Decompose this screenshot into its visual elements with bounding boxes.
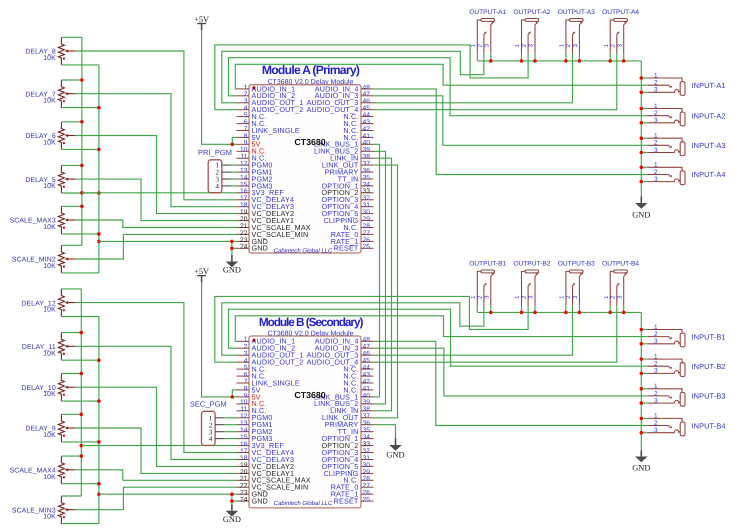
connector jack OUTPUT-A3 (phone jack, vertical) [558, 9, 595, 54]
svg-text:OUTPUT-A4: OUTPUT-A4 [602, 9, 639, 16]
wire SEC_PGM pin 4 to IC [225, 438, 237, 440]
svg-text:INPUT-A3: INPUT-A3 [692, 141, 726, 150]
svg-text:13: 13 [240, 420, 248, 427]
ground symbol input bus B [635, 450, 648, 462]
IC UA pin stubs right 25-48 [361, 89, 374, 248]
IC UB pin names and numbers [240, 337, 370, 506]
wire OUTPUT-A2 ring pin to bus [534, 54, 536, 61]
svg-text:GND: GND [223, 266, 241, 275]
svg-text:GND: GND [632, 211, 650, 220]
wire: +5V to U-B pins 8/9 [202, 282, 237, 397]
svg-text:3: 3 [654, 87, 658, 94]
IC UA pin stubs left 1-24 [237, 89, 250, 248]
junction dots GND bus A [97, 106, 101, 243]
svg-text:12: 12 [240, 161, 248, 168]
wire INPUT-B4 pin3 to bus [641, 432, 647, 434]
svg-text:Module A (Primary): Module A (Primary) [262, 63, 360, 77]
wire PRI_PGM pin 4 to IC [231, 185, 237, 187]
IC UA part name CT3680 [294, 137, 325, 147]
wire DELAY_9 wiper to U-B pin 20 [75, 428, 236, 473]
wire INPUT-B4 pin1 to bus [641, 417, 647, 419]
wire OUTPUT-B3 ring pin to bus [578, 305, 580, 312]
wire OUTPUT-B2 sleeve pin to bus [521, 305, 523, 312]
connector jack INPUT-B1 (phone jack, horizontal) [647, 324, 725, 347]
connector jack OUTPUT-B2 (phone jack, vertical) [513, 261, 550, 306]
connector jack INPUT-B4 (phone jack, horizontal) [647, 413, 725, 436]
wire INPUT-A4 pin1 to bus [641, 166, 647, 168]
svg-text:3: 3 [654, 427, 658, 434]
svg-text:10K: 10K [43, 183, 56, 190]
wire: 3V3_REF vertical bus (module A pots top) [81, 37, 83, 245]
+5V power symbol (module A) [194, 15, 209, 24]
wire AUDIO_IN_2 U-B pin2 to INPUT-B2 tip [229, 309, 648, 366]
wire DELAY_6 wiper to U-A pin 19 [75, 136, 236, 214]
svg-text:OUTPUT-B4: OUTPUT-B4 [602, 261, 639, 268]
connector jack OUTPUT-B4 (phone jack, vertical) [602, 261, 639, 306]
wire SCALE_MIN3 top terminal to 3V3 bus [61, 495, 81, 497]
svg-text:+5V: +5V [194, 267, 209, 276]
svg-text:2: 2 [654, 80, 658, 87]
wire DELAY_12 wiper to U-B pin 17 [75, 303, 236, 453]
wire SCALE_MIN3 wiper to U-B pin 22 [75, 487, 236, 510]
svg-text:OUTPUT-B3: OUTPUT-B3 [558, 261, 595, 268]
svg-text:22: 22 [240, 483, 248, 490]
wire DELAY_5 wiper to U-A pin 20 [75, 179, 236, 221]
connector jack OUTPUT-B1 (phone jack, vertical) [469, 261, 506, 306]
svg-text:22: 22 [240, 230, 248, 237]
wire OUTPUT-A4 sleeve pin to bus [609, 54, 611, 61]
ground symbol below U-A [226, 255, 239, 267]
junction dots 3V3 bus B [80, 331, 84, 458]
svg-text:10K: 10K [43, 224, 56, 231]
svg-text:44: 44 [363, 112, 371, 119]
connector jack OUTPUT-A2 (phone jack, vertical) [513, 9, 550, 54]
wire DELAY_12 bottom terminal to GND bus [61, 316, 99, 318]
wire OUTPUT-A1 ring pin to bus [490, 54, 492, 61]
svg-text:1: 1 [654, 162, 658, 169]
svg-text:10: 10 [240, 399, 248, 406]
wire DELAY_9 bottom terminal to GND bus [61, 441, 99, 443]
svg-text:2: 2 [654, 390, 658, 397]
svg-text:2: 2 [654, 420, 658, 427]
connector jack INPUT-A2 (phone jack, horizontal) [647, 103, 725, 126]
wire SCALE_MAX4 wiper to U-B pin 21 [75, 470, 236, 481]
svg-text:OUTPUT-B1: OUTPUT-B1 [469, 261, 506, 268]
svg-text:1: 1 [654, 324, 658, 331]
wire AUDIO_IN_2 U-A pin2 to INPUT-A2 tip [229, 58, 648, 116]
wire OUTPUT-B3 sleeve pin to bus [565, 305, 567, 312]
svg-text:3: 3 [244, 351, 248, 358]
svg-text:10K: 10K [43, 140, 56, 147]
svg-text:3: 3 [654, 147, 658, 154]
potentiometer DELAY_7 10K [25, 80, 75, 108]
junction dots 3V3 bus A [80, 78, 84, 208]
svg-text:GND: GND [252, 244, 269, 253]
IC UB maker label Cabintech Global LLC [274, 500, 333, 507]
junction dots output bus B [489, 311, 626, 315]
svg-text:10K: 10K [43, 474, 56, 481]
svg-text:30: 30 [363, 462, 371, 469]
wire SCALE_MIN2 bottom terminal to GND bus [61, 272, 99, 274]
svg-text:INPUT-B1: INPUT-B1 [692, 332, 726, 341]
svg-text:19: 19 [240, 462, 248, 469]
junction dots GND at U-A [230, 240, 234, 251]
svg-text:SEC_PGM: SEC_PGM [190, 400, 227, 409]
svg-text:2: 2 [654, 331, 658, 338]
svg-text:10K: 10K [43, 98, 56, 105]
wire DELAY_6 bottom terminal to GND bus [61, 148, 99, 150]
svg-text:RESET: RESET [334, 497, 359, 506]
module A title [262, 63, 360, 77]
IC UB pin stubs right 25-48 [361, 341, 374, 501]
wire DELAY_11 wiper to U-B pin 18 [75, 346, 236, 459]
svg-text:Cabintech Global LLC: Cabintech Global LLC [274, 500, 333, 507]
wire LINK_BUS_2 U-A pin39 to U-B pin39 [374, 151, 386, 404]
junction dots input bus A [640, 76, 644, 183]
svg-text:10K: 10K [43, 55, 56, 62]
svg-text:12: 12 [240, 413, 248, 420]
svg-text:3: 3 [654, 176, 658, 183]
wire INPUT-B2 pin3 to bus [641, 372, 647, 374]
potentiometer DELAY_5 10K [25, 165, 75, 193]
svg-text:OUTPUT-B2: OUTPUT-B2 [513, 261, 550, 268]
svg-text:GND: GND [632, 464, 650, 473]
wire DELAY_8 top terminal to 3V3 bus [61, 36, 82, 38]
svg-text:10K: 10K [43, 350, 56, 357]
module B title [259, 315, 364, 329]
svg-text:GND: GND [386, 450, 404, 459]
wire INPUT-A3 pin3 to bus [641, 152, 647, 154]
svg-text:CT3680: CT3680 [294, 390, 325, 400]
wire OUTPUT-A2 sleeve pin to bus [521, 54, 523, 61]
wire AUDIO_IN_4 U-A pin48 to INPUT-A4 tip [374, 89, 648, 175]
svg-text:19: 19 [240, 209, 248, 216]
wire SEC_PGM pin 2 to IC [225, 424, 237, 426]
svg-text:INPUT-B3: INPUT-B3 [692, 392, 726, 401]
IC UB part name CT3680 [294, 390, 325, 400]
svg-text:10K: 10K [43, 263, 56, 270]
connector SEC_PGM 4-pin header [202, 411, 225, 445]
svg-text:39: 39 [363, 399, 371, 406]
svg-text:46: 46 [363, 351, 371, 358]
ground symbol below U-B [226, 505, 239, 517]
wire DELAY_5 bottom terminal to GND bus [61, 192, 99, 194]
wire INPUT-B1 pin3 to bus [641, 343, 647, 345]
wire: GND vertical bus (module A pots bottom) [98, 65, 100, 273]
svg-text:INPUT-A2: INPUT-A2 [692, 111, 726, 120]
svg-text:16: 16 [240, 188, 248, 195]
svg-text:1: 1 [654, 353, 658, 360]
svg-text:6: 6 [244, 371, 248, 378]
svg-text:1: 1 [654, 413, 658, 420]
wire SEC_PGM pin 3 to IC [225, 431, 237, 433]
IC UA pin names and numbers [240, 84, 370, 252]
connector PRI_PGM 4-pin header [208, 160, 231, 193]
wire SCALE_MAX3 top terminal to 3V3 bus [61, 205, 82, 207]
wire AUDIO_OUT_4 U-B pin45 to OUTPUT-B4 tip [374, 305, 617, 362]
wire SCALE_MIN2 wiper to U-A pin 22 [75, 234, 236, 259]
wire OUTPUT-A4 ring pin to bus [623, 54, 625, 61]
op-amp/delay IC UA: CT3680 module body [249, 85, 361, 253]
potentiometer DELAY_6 10K [25, 122, 75, 150]
potentiometer DELAY_9 10K [25, 414, 75, 442]
potentiometer SCALE_MIN3 10K [12, 496, 76, 524]
IC UB pin 1 marker dot [253, 339, 256, 342]
wire: output jacks B ground bus [477, 311, 641, 313]
connector jack INPUT-A3 (phone jack, horizontal) [647, 133, 725, 156]
svg-text:10K: 10K [43, 391, 56, 398]
potentiometer DELAY_10 10K [21, 374, 75, 402]
svg-text:INPUT-A1: INPUT-A1 [692, 81, 726, 90]
junction dots GND at U-B [230, 492, 234, 503]
svg-text:2: 2 [654, 361, 658, 368]
svg-text:1: 1 [654, 103, 658, 110]
svg-text:47: 47 [363, 344, 371, 351]
wire PRI_PGM pin 2 to IC [231, 171, 237, 173]
module A subtitle [268, 78, 354, 86]
wire AUDIO_OUT_4 U-A pin45 to OUTPUT-A4 tip [374, 54, 617, 110]
wire: input jacks A ground bus [640, 61, 642, 197]
wire: GND vertical bus (module B pots bottom) [98, 317, 100, 524]
wire AUDIO_IN_1 U-B pin1 to INPUT-B1 tip [235, 316, 647, 342]
potentiometer SCALE_MAX3 10K [10, 206, 76, 234]
wire SCALE_MAX3 wiper to U-A pin 21 [75, 220, 236, 228]
svg-text:3: 3 [654, 338, 658, 345]
wire AUDIO_IN_1 U-A pin1 to INPUT-A1 tip [235, 64, 647, 89]
svg-text:GND: GND [223, 515, 241, 524]
wire OUTPUT-B2 ring pin to bus [534, 305, 536, 312]
connector jack INPUT-B2 (phone jack, horizontal) [647, 353, 725, 376]
svg-text:27: 27 [363, 483, 371, 490]
svg-text:25: 25 [363, 244, 371, 251]
svg-text:5: 5 [244, 112, 248, 119]
svg-text:27: 27 [363, 230, 371, 237]
wire AUDIO_IN_3 U-A pin47 to INPUT-A3 tip [374, 96, 648, 146]
wire: GND net pots bus to U-B pins 23/24 [99, 493, 237, 495]
wire DELAY_10 top terminal to 3V3 bus [61, 373, 81, 375]
junction dot +5V at U-A [231, 143, 235, 147]
wire SCALE_MAX3 bottom terminal to GND bus [61, 233, 99, 235]
IC UA pin 1 marker dot [253, 86, 256, 89]
wire DELAY_12 top terminal to 3V3 bus [61, 288, 81, 290]
wire AUDIO_OUT_2 U-A pin4 to OUTPUT-A2 tip [215, 45, 528, 110]
svg-text:PRI_PGM: PRI_PGM [198, 148, 232, 157]
potentiometer DELAY_11 10K [22, 333, 75, 361]
svg-text:4: 4 [215, 183, 219, 191]
svg-text:3: 3 [654, 368, 658, 375]
op-amp/delay IC UB: CT3680 module body [249, 336, 361, 508]
svg-text:OUTPUT-A2: OUTPUT-A2 [513, 9, 550, 16]
svg-text:24: 24 [240, 497, 248, 504]
IC UA maker label Cabintech Global LLC [274, 247, 333, 254]
wire SCALE_MAX4 top terminal to 3V3 bus [61, 455, 81, 457]
svg-text:2: 2 [244, 344, 248, 351]
wire DELAY_11 bottom terminal to GND bus [61, 359, 99, 361]
svg-text:24: 24 [240, 244, 248, 251]
potentiometer SCALE_MAX4 10K [10, 456, 76, 484]
svg-text:4: 4 [209, 435, 213, 443]
svg-text:INPUT-B4: INPUT-B4 [692, 421, 726, 430]
wire: GND net pots bus to U-A pins 23/24 [99, 240, 237, 242]
svg-text:32: 32 [363, 448, 371, 455]
svg-text:GND: GND [252, 497, 269, 506]
wire OUTPUT-B1 ring pin to bus [490, 305, 492, 312]
ground symbol input bus A [635, 197, 648, 209]
junction dots input bus B [640, 328, 644, 435]
svg-text:1: 1 [654, 383, 658, 390]
wire OUTPUT-B4 ring pin to bus [623, 305, 625, 312]
IC UB pin stubs left 1-24 [237, 341, 250, 501]
svg-text:41: 41 [363, 385, 371, 392]
svg-text:3: 3 [654, 397, 658, 404]
svg-text:10K: 10K [43, 432, 56, 439]
svg-text:2: 2 [654, 169, 658, 176]
svg-text:10K: 10K [43, 307, 56, 314]
svg-text:+5V: +5V [194, 15, 209, 24]
svg-text:INPUT-B2: INPUT-B2 [692, 362, 726, 371]
wire AUDIO_OUT_1 U-B pin3 to OUTPUT-B1 tip [222, 303, 484, 355]
wire LINK_IN U-A pin38 to U-B pin38 [374, 158, 392, 411]
wire INPUT-B3 pin1 to bus [641, 388, 647, 390]
wire AUDIO_OUT_1 U-A pin3 to OUTPUT-A1 tip [222, 51, 484, 103]
connector jack INPUT-A4 (phone jack, horizontal) [647, 162, 725, 185]
potentiometer DELAY_8 10K [25, 37, 75, 65]
wire DELAY_8 bottom terminal to GND bus [61, 64, 99, 66]
svg-text:10K: 10K [43, 514, 56, 521]
junction dot +5V at U-B [231, 395, 235, 399]
wire INPUT-A4 pin3 to bus [641, 181, 647, 183]
svg-text:17: 17 [240, 448, 248, 455]
wire DELAY_9 top terminal to 3V3 bus [61, 413, 81, 415]
wire PRIMARY U-B pin36 to ground [374, 425, 396, 439]
wire DELAY_7 bottom terminal to GND bus [61, 107, 99, 109]
svg-text:OUTPUT-A1: OUTPUT-A1 [469, 9, 506, 16]
wire PRI_PGM pin 1 to IC [231, 164, 237, 166]
svg-text:OUTPUT-A3: OUTPUT-A3 [558, 9, 595, 16]
wire OUTPUT-B1 sleeve pin to bus [476, 305, 478, 312]
svg-text:9: 9 [244, 140, 248, 147]
wire INPUT-A2 pin3 to bus [641, 122, 647, 124]
module B subtitle [268, 329, 354, 337]
wire DELAY_7 wiper to U-A pin 18 [75, 94, 236, 207]
wire INPUT-A2 pin1 to bus [641, 108, 647, 110]
wire OUTPUT-A1 sleeve pin to bus [476, 54, 478, 61]
svg-text:CT3680: CT3680 [294, 137, 325, 147]
junction dots GND bus B [97, 358, 101, 496]
svg-text:3: 3 [654, 117, 658, 124]
svg-text:16: 16 [240, 441, 248, 448]
wire AUDIO_IN_3 U-B pin47 to INPUT-B3 tip [374, 348, 648, 396]
svg-text:40: 40 [363, 140, 371, 147]
wire DELAY_8 wiper to U-A pin 17 [75, 51, 236, 200]
wire AUDIO_OUT_3 U-B pin46 to OUTPUT-B3 tip [374, 305, 573, 355]
svg-text:2: 2 [244, 91, 248, 98]
potentiometer SCALE_MIN2 10K [12, 245, 76, 273]
connector jack OUTPUT-B3 (phone jack, vertical) [558, 261, 595, 306]
svg-text:25: 25 [363, 497, 371, 504]
wire: 3V3_REF feed to U-B pin16 [81, 445, 236, 447]
wire DELAY_11 top terminal to 3V3 bus [61, 332, 81, 334]
wire DELAY_7 top terminal to 3V3 bus [61, 79, 82, 81]
wire INPUT-B1 pin1 to bus [641, 329, 647, 331]
wire: 3V3_REF feed to U-A pin16 [82, 192, 237, 194]
wire SCALE_MAX4 bottom terminal to GND bus [61, 483, 99, 485]
wire AUDIO_IN_4 U-B pin48 to INPUT-B4 tip [374, 341, 648, 425]
junction dots output bus A [489, 59, 626, 63]
connector jack INPUT-A1 (phone jack, horizontal) [647, 72, 725, 95]
wire INPUT-B3 pin3 to bus [641, 402, 647, 404]
wire OUTPUT-B4 sleeve pin to bus [609, 305, 611, 312]
wire SEC_PGM pin 1 to IC [225, 417, 237, 419]
svg-text:37: 37 [363, 161, 371, 168]
svg-text:1: 1 [654, 133, 658, 140]
svg-text:INPUT-A4: INPUT-A4 [692, 170, 726, 179]
wire INPUT-A1 pin3 to bus [641, 91, 647, 93]
ground symbol at U-B PRIMARY [389, 439, 402, 451]
svg-text:8: 8 [244, 385, 248, 392]
wire DELAY_5 top terminal to 3V3 bus [61, 164, 82, 166]
wire DELAY_10 wiper to U-B pin 19 [75, 387, 236, 466]
connector jack INPUT-B3 (phone jack, horizontal) [647, 383, 725, 406]
svg-text:2: 2 [654, 140, 658, 147]
svg-text:1: 1 [654, 72, 658, 79]
wire PRI_PGM pin 3 to IC [231, 178, 237, 180]
wire AUDIO_OUT_3 U-A pin46 to OUTPUT-A3 tip [374, 54, 573, 103]
connector jack OUTPUT-A4 (phone jack, vertical) [602, 9, 639, 54]
wire INPUT-A3 pin1 to bus [641, 137, 647, 139]
svg-text:2: 2 [654, 110, 658, 117]
svg-text:30: 30 [363, 209, 371, 216]
svg-text:RESET: RESET [334, 244, 359, 253]
wire OUTPUT-A3 ring pin to bus [578, 54, 580, 61]
svg-text:Cabintech Global LLC: Cabintech Global LLC [274, 247, 333, 254]
svg-text:47: 47 [363, 91, 371, 98]
wire LINK_BUS_1 U-A pin40 to U-B pin40 [374, 144, 380, 397]
svg-text:33: 33 [363, 188, 371, 195]
wire: input jacks B ground bus [640, 312, 642, 450]
wire INPUT-B2 pin1 to bus [641, 358, 647, 360]
wire INPUT-A1 pin1 to bus [641, 77, 647, 79]
wire OUTPUT-A3 sleeve pin to bus [565, 54, 567, 61]
wire SCALE_MIN2 top terminal to 3V3 bus [61, 244, 82, 246]
svg-text:36: 36 [363, 420, 371, 427]
wire AUDIO_OUT_2 U-B pin4 to OUTPUT-B2 tip [215, 296, 528, 362]
wire: 3V3_REF vertical bus (module B pots top) [80, 289, 82, 496]
svg-text:33: 33 [363, 441, 371, 448]
potentiometer DELAY_12 10K [21, 289, 75, 317]
wire: output jacks A ground bus [477, 60, 641, 62]
+5V power symbol (module B) [194, 267, 209, 276]
svg-text:37: 37 [363, 413, 371, 420]
wire DELAY_6 top terminal to 3V3 bus [61, 121, 82, 123]
wire DELAY_10 bottom terminal to GND bus [61, 400, 99, 402]
wire SCALE_MIN3 bottom terminal to GND bus [61, 523, 99, 525]
wire: +5V to U-A pins 8/9 [202, 30, 237, 144]
svg-text:43: 43 [363, 371, 371, 378]
wire LINK_OUT U-A pin37 to U-B pin37 [374, 165, 398, 418]
svg-text:Module B (Secondary): Module B (Secondary) [259, 315, 364, 329]
connector jack OUTPUT-A1 (phone jack, vertical) [469, 9, 506, 54]
